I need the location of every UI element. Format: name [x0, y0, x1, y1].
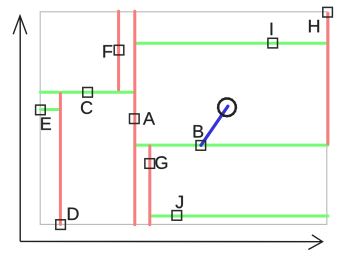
label B [194, 125, 204, 137]
boundary rectangle [40, 12, 327, 225]
point square C [83, 88, 93, 98]
label E [41, 118, 51, 130]
point square D [56, 220, 66, 230]
green segment F-I (y=43) [135, 42, 328, 45]
green segment C (y=92.3) [40, 91, 134, 94]
point square H [323, 7, 333, 17]
y-axis [13, 16, 27, 242]
green segment J (y=215.8) [150, 215, 328, 218]
label A [143, 112, 155, 124]
point square E [36, 105, 46, 115]
x-axis [20, 235, 322, 250]
label C [81, 101, 92, 114]
red segment through A (x=134.4) [133, 11, 136, 225]
point square B [196, 141, 206, 151]
blue segment B to circle [201, 106, 228, 145]
point square F [114, 45, 124, 55]
red segment through F (x=118.6) [117, 11, 120, 90]
point square J [172, 211, 182, 221]
green segment E (y=109.5) [40, 108, 60, 111]
circle marker [218, 99, 236, 117]
red segment through D (x=60.4) [59, 94, 62, 225]
label H [309, 20, 319, 32]
label J [176, 196, 183, 209]
red segment through H (x=327.6) [326, 13, 329, 144]
label F [103, 45, 112, 57]
green segment B (y=145) [135, 144, 328, 147]
red segment through G (x=149.8) [148, 146, 151, 225]
point square A [130, 114, 140, 124]
label G [155, 156, 167, 169]
label I [271, 23, 273, 35]
point square I [268, 38, 278, 48]
label D [68, 208, 79, 220]
point square G [145, 159, 155, 169]
